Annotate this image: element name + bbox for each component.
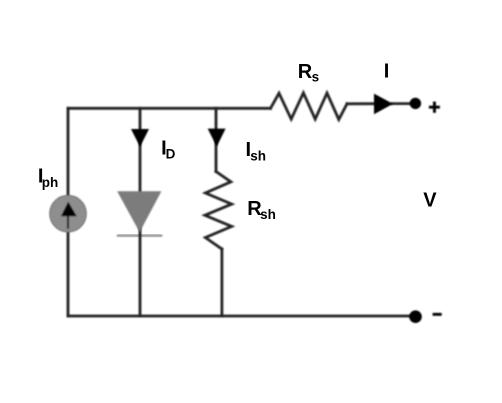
current source arrowhead <box>61 202 77 217</box>
wire Rs to output arrow <box>347 102 375 105</box>
svg-text:ph: ph <box>42 175 59 190</box>
diode current arrowhead ID <box>131 129 149 147</box>
wire diode branch <box>139 108 142 316</box>
wire bottom bus <box>68 315 410 318</box>
svg-text:V: V <box>423 189 437 211</box>
resistor Rs zigzag <box>271 93 348 120</box>
svg-text:D: D <box>166 147 176 162</box>
current source Iph circle <box>50 195 87 232</box>
diode D cathode bar <box>117 234 163 237</box>
wire left branch vertical lower <box>67 232 70 316</box>
current source arrow shaft <box>67 213 69 229</box>
wire arrow to plus terminal <box>392 102 410 105</box>
wire left branch vertical upper <box>67 108 70 195</box>
plus sign horizontal stroke <box>429 106 440 109</box>
wire shunt branch upper <box>215 108 218 171</box>
minus sign <box>433 313 442 316</box>
plus sign vertical stroke <box>433 102 436 113</box>
shunt current arrowhead Ish <box>208 129 226 147</box>
svg-text:sh: sh <box>260 207 276 222</box>
terminal node minus dot <box>409 310 422 323</box>
wire shunt branch lower <box>220 249 223 316</box>
wire top bus from node A to resistor Rs <box>68 107 271 110</box>
terminal node plus dot <box>410 98 421 109</box>
svg-text:s: s <box>312 69 320 84</box>
output current arrowhead I <box>374 94 393 115</box>
resistor Rsh zigzag <box>205 172 232 250</box>
diode D triangle <box>117 191 161 232</box>
svg-text:I: I <box>384 61 390 83</box>
svg-text:sh: sh <box>250 148 266 163</box>
svg-text:R: R <box>298 61 313 83</box>
